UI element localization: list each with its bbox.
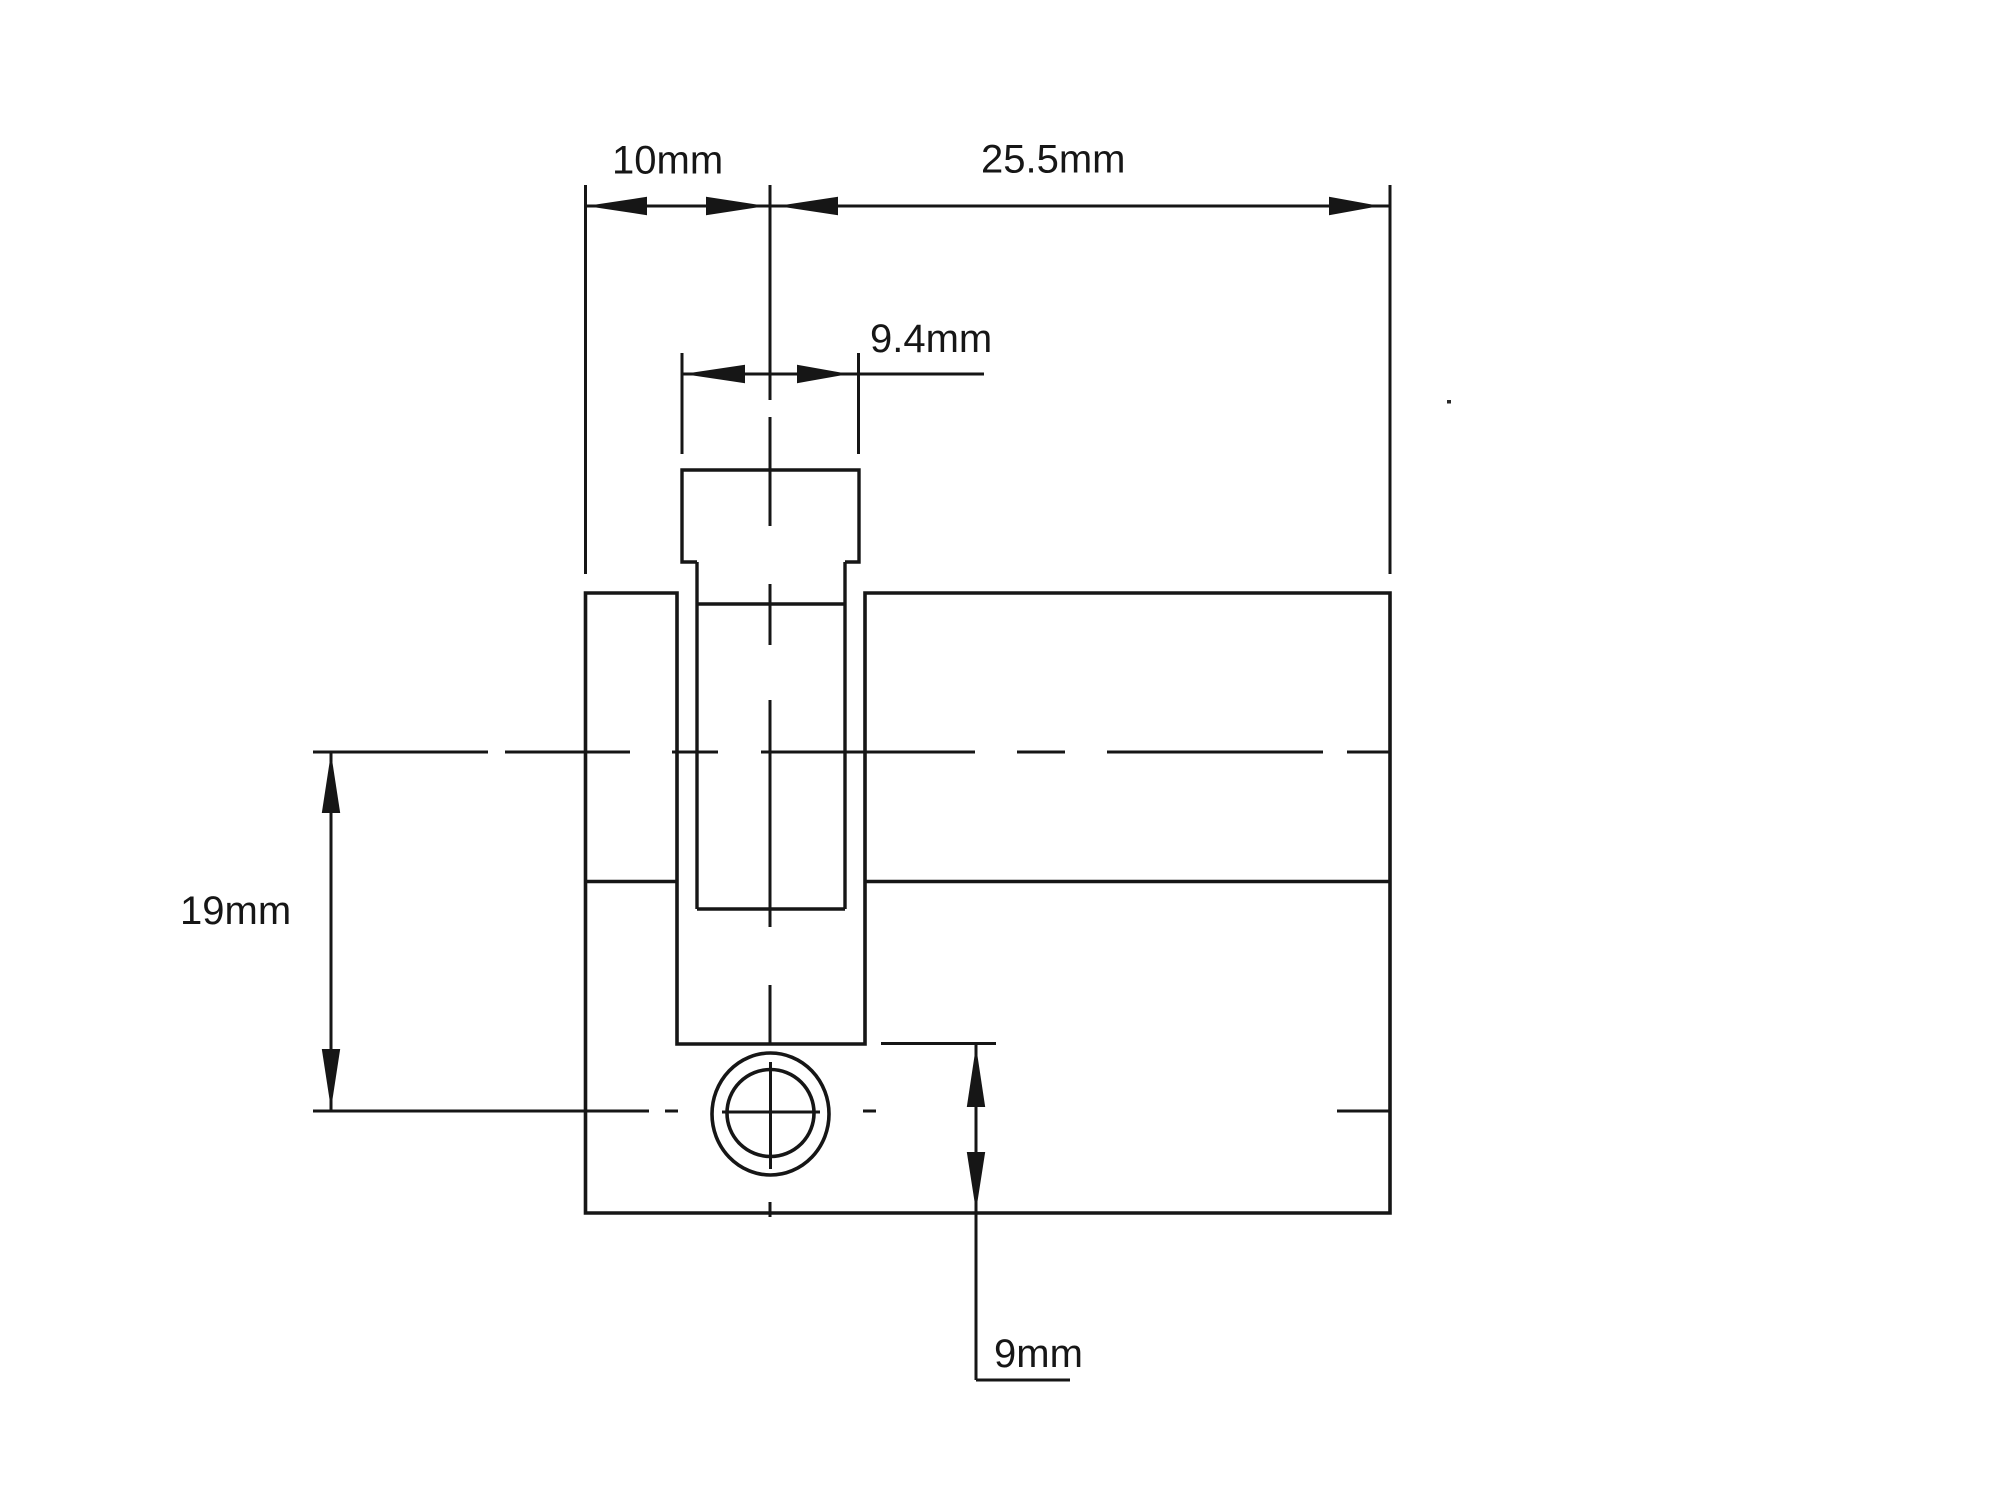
dimension line 9.4mm y=374 bbox=[682, 373, 984, 376]
svg-text:10mm: 10mm bbox=[612, 139, 723, 183]
keyway bottom line bbox=[697, 907, 845, 910]
arrowhead 9mm down bbox=[967, 1152, 985, 1211]
arrowhead 19mm up bbox=[322, 753, 340, 813]
arrowhead 9.4mm left bbox=[683, 365, 745, 383]
svg-text:19mm: 19mm bbox=[180, 889, 291, 933]
horizontal centerline y=1111 (hole axis) bbox=[313, 1110, 1391, 1113]
horizontal centerline y=752 bbox=[313, 751, 1391, 754]
waist line left bbox=[586, 880, 678, 883]
arrowhead 9.4mm right bbox=[797, 365, 849, 383]
dimension line top y=206 bbox=[586, 205, 1390, 208]
fixing screw hole outer circle bbox=[712, 1053, 829, 1175]
dimension line 19mm x=331 bbox=[330, 752, 333, 1110]
arrowhead 19mm down bbox=[322, 1049, 340, 1109]
keyway left wall bbox=[695, 562, 698, 909]
keyway top line bbox=[697, 602, 845, 605]
svg-text:25.5mm: 25.5mm bbox=[981, 138, 1126, 182]
svg-text:9mm: 9mm bbox=[994, 1332, 1083, 1376]
vertical centerline x=770 bbox=[769, 185, 772, 1217]
hole crosshair vertical bbox=[769, 1062, 772, 1169]
arrowhead 10mm left bbox=[586, 197, 647, 215]
waist line right bbox=[865, 880, 1390, 883]
extension line 9.4 right x=858.5 bbox=[857, 353, 860, 454]
dimension line 9mm x=976 bbox=[975, 1044, 978, 1381]
arrowhead 9mm up bbox=[967, 1046, 985, 1107]
extension line 9mm horizontal y=1043.5 bbox=[881, 1042, 996, 1045]
arrowhead 25.5mm left bbox=[777, 197, 838, 215]
body outline bbox=[586, 593, 1391, 1213]
arrowhead 10mm right bbox=[706, 197, 766, 215]
extension line left x=585 bbox=[584, 185, 587, 574]
fixing screw hole inner circle bbox=[727, 1070, 814, 1157]
svg-text:9.4mm: 9.4mm bbox=[870, 317, 992, 361]
extension line 9.4 left x=682 bbox=[681, 353, 684, 454]
hole crosshair horizontal bbox=[722, 1111, 820, 1114]
keyway right wall bbox=[843, 562, 846, 909]
arrowhead 25.5mm right bbox=[1329, 197, 1380, 215]
extension line right x=1390 bbox=[1389, 185, 1392, 574]
plug cap outline bbox=[682, 470, 859, 562]
9mm label underline bbox=[976, 1379, 1070, 1382]
stray speck bbox=[1447, 400, 1451, 404]
